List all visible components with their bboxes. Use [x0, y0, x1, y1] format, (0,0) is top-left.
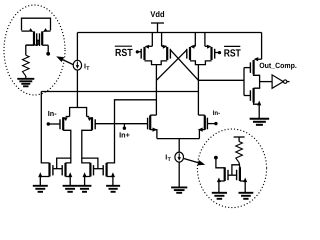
node RST left: [136, 50, 139, 53]
wire node B to output gates: [198, 79, 244, 81]
arrow IT2 to inset B: [184, 159, 205, 166]
wire Vdd rail to IT1: [76, 33, 78, 61]
node In+: [123, 124, 126, 130]
svg-text:RST: RST: [224, 48, 242, 59]
ground M6: [63, 186, 78, 192]
node inset B output: [214, 156, 218, 160]
wire QB1 drain to node: [216, 159, 225, 167]
transistor MO1: [250, 57, 261, 74]
wire In- right to M4 gate: [207, 123, 216, 125]
label RST left: [115, 46, 133, 59]
transistor M2: [87, 117, 96, 131]
node RST right: [218, 51, 221, 54]
wire M8 drain to latch node A: [107, 100, 157, 163]
transistor M6: [62, 163, 72, 186]
wire RA to ground: [25, 76, 27, 78]
ground QB1: [212, 193, 227, 199]
wire latch node B riser to M5: [41, 92, 49, 163]
wire M11 source stem: [194, 33, 196, 47]
wire IT1 to input pair tail: [76, 70, 78, 107]
wire mirror2 gates: [82, 158, 103, 169]
wire tail node left pair: [70, 108, 87, 117]
wire MO1 MO2 drains: [254, 74, 273, 88]
ground M7: [78, 186, 92, 192]
transistor QA1: [22, 28, 37, 46]
ground M8: [106, 186, 120, 192]
arrow IT1 to inset A: [56, 56, 73, 64]
current source IT1: [73, 60, 81, 70]
wire Vdd rail: [77, 32, 261, 34]
wire right pair tail: [157, 139, 200, 153]
wire RB to QB2 drain: [238, 163, 241, 168]
svg-text:In+: In+: [119, 131, 130, 140]
transistor M10: [162, 45, 171, 60]
wire M9 source stem: [151, 33, 153, 47]
label IT2: [165, 153, 171, 163]
wire In+ net: [95, 123, 147, 125]
wire QA1 source: [26, 45, 34, 55]
transistor M9: [141, 45, 152, 60]
label In-: [48, 109, 57, 118]
wire M10 source stem: [161, 33, 163, 47]
label Out_Comp: [259, 61, 297, 70]
transistor M8: [103, 163, 115, 186]
node In- right: [214, 122, 217, 125]
transistor QB2: [237, 167, 248, 192]
transistor M5: [38, 163, 53, 186]
wire QA2 source to node: [42, 45, 48, 52]
ground QB2: [239, 193, 254, 199]
svg-text:RST: RST: [115, 48, 133, 59]
transistor M11: [187, 45, 196, 60]
wire M2 drain leg: [82, 130, 92, 163]
svg-text:Out_Comp.: Out_Comp.: [259, 61, 297, 70]
transistor QA2: [40, 28, 51, 46]
transistor QB1: [217, 167, 228, 192]
wire RSTR to M12 gate: [215, 52, 220, 54]
wire M1 drain leg: [63, 130, 71, 163]
label In- right: [213, 110, 220, 117]
label In+: [119, 131, 130, 140]
wire RSTL to M9 gate: [137, 51, 141, 53]
transistor MO2: [250, 88, 261, 119]
ground MO2: [250, 119, 270, 125]
wire mirror1 gates: [53, 158, 71, 169]
wire IT2 to ground: [178, 162, 180, 187]
bias detail inset A dotted ellipse: [4, 5, 65, 95]
wire cross-couple M11 gate to node A: [156, 50, 187, 81]
node In-: [47, 122, 50, 125]
wire In- to M1 gate: [48, 123, 60, 125]
current source IT2: [175, 152, 184, 162]
wire gate tie inset A: [26, 40, 40, 45]
inverter U1: [272, 75, 289, 88]
svg-text:In-: In-: [213, 110, 220, 117]
ground IT2: [171, 187, 187, 192]
transistor M4: [198, 115, 208, 139]
wire latch node B bus: [41, 91, 198, 93]
wire inset B gates: [228, 165, 239, 175]
svg-text:In-: In-: [48, 109, 57, 118]
wire Vdd rail to MO1: [261, 33, 263, 60]
wire top box of inset A: [22, 18, 51, 30]
wire output stage gates: [244, 68, 250, 96]
label RST right: [224, 46, 242, 59]
svg-text:Vdd: Vdd: [150, 9, 164, 19]
wire latch pair A drains: [145, 61, 168, 115]
label IT1: [84, 62, 90, 72]
transistor M3: [148, 115, 158, 139]
resistor RA: [23, 55, 30, 76]
ground M5: [33, 186, 48, 192]
bias detail inset B dotted ellipse: [197, 129, 266, 208]
transistor M1: [60, 117, 70, 131]
ground inset A: [17, 79, 34, 87]
wire cross-couple M10 gate to node B: [170, 50, 198, 81]
wire M12 source stem: [204, 33, 206, 47]
node inset A output: [46, 52, 50, 56]
transistor M12: [205, 45, 215, 60]
Vdd supply symbol: [150, 9, 164, 32]
resistor RB: [236, 142, 243, 163]
wire latch pair B drains: [190, 61, 212, 115]
transistor M7: [83, 163, 94, 186]
supply tee inset B: [234, 137, 245, 142]
